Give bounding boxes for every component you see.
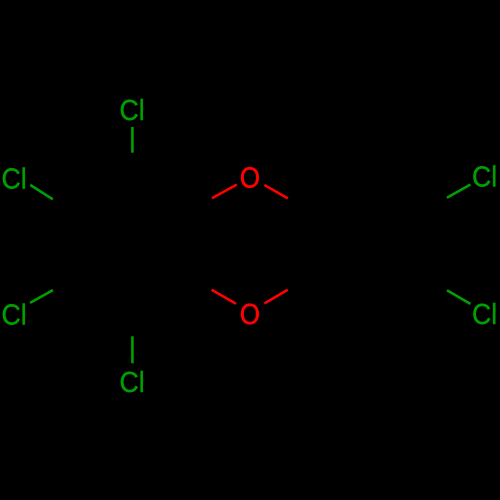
- svg-text:Cl: Cl: [472, 298, 497, 330]
- bond O10-C10a (top oxygen, right half-bond): [264, 185, 287, 198]
- bond C4-Cl (bottom, vertical half-bond): [131, 336, 134, 363]
- bond O5-C4a (bottom oxygen, left half-bond): [212, 290, 236, 304]
- bond C3-Cl (lower left half-bond): [30, 290, 53, 303]
- svg-text:O: O: [240, 161, 260, 194]
- bond C2-Cl (upper left half-bond): [30, 185, 53, 199]
- svg-text:Cl: Cl: [120, 94, 145, 126]
- svg-text:Cl: Cl: [2, 298, 27, 330]
- svg-text:Cl: Cl: [472, 160, 497, 192]
- bond C7-Cl (lower right half-bond): [447, 290, 470, 304]
- svg-text:Cl: Cl: [120, 366, 145, 398]
- bond O5-C5a (bottom oxygen, right half-bond): [264, 290, 287, 304]
- bond O10-C9a (top oxygen, left half-bond): [212, 185, 237, 199]
- bond C8-Cl (upper right half-bond): [447, 185, 471, 198]
- svg-text:Cl: Cl: [2, 162, 27, 194]
- svg-text:O: O: [240, 298, 260, 331]
- bond C1-Cl (top, vertical half-bond): [131, 127, 134, 153]
